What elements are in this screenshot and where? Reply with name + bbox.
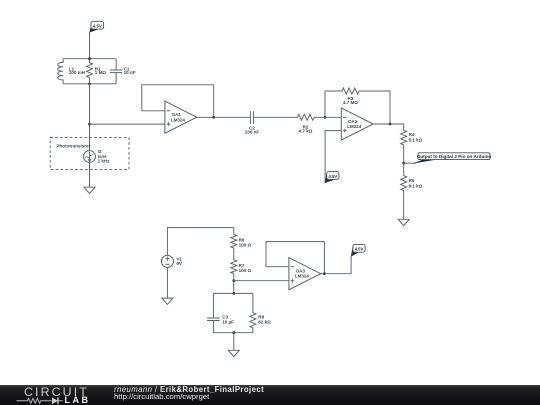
wire V1 top rail xyxy=(167,228,233,256)
wire I3 to ground xyxy=(89,162,91,187)
OA3 output wire xyxy=(321,257,351,274)
current source I3 xyxy=(84,149,111,163)
svg-text:LM324: LM324 xyxy=(295,274,310,279)
svg-text:82 kΩ: 82 kΩ xyxy=(258,319,271,324)
svg-text:100 mH: 100 mH xyxy=(69,70,85,75)
OA1 feedback loop wire xyxy=(142,85,214,117)
supply flag 4.5V top-left xyxy=(89,21,103,58)
node: divider mid junction xyxy=(232,279,235,282)
resistor R8 xyxy=(250,293,271,332)
svg-text:10 µF: 10 µF xyxy=(222,319,234,324)
resistor R2 xyxy=(253,114,325,133)
svg-text:1 kHz: 1 kHz xyxy=(98,159,111,164)
svg-text:100 nF: 100 nF xyxy=(245,130,260,135)
svg-text:9.1 kΩ: 9.1 kΩ xyxy=(409,183,423,188)
OA3 feedback loop wire xyxy=(266,242,324,274)
op-amp OA3 xyxy=(289,258,321,290)
resistor R6 xyxy=(231,228,252,254)
capacitor C3 xyxy=(207,293,234,332)
capacitor C1 xyxy=(110,59,136,84)
node: RC bottom junction xyxy=(232,331,235,334)
supply flag 4.5V (OA3 output) xyxy=(351,244,365,256)
wire junction to OA3 +input xyxy=(234,280,289,282)
wire to OA1 + input xyxy=(90,123,165,125)
svg-text:R7: R7 xyxy=(239,263,245,268)
wire RC box to ground xyxy=(233,333,235,351)
node: OA3 output junction xyxy=(323,272,326,275)
svg-text:4.7 MΩ: 4.7 MΩ xyxy=(343,100,358,105)
svg-text:9V: 9V xyxy=(176,261,182,266)
op-amp OA2 xyxy=(341,108,373,140)
ground (phototransistor) xyxy=(84,187,95,193)
resistor R5 xyxy=(401,163,423,219)
wire V1 to ground xyxy=(166,267,168,298)
svg-text:R6: R6 xyxy=(239,237,245,242)
ground (V1) xyxy=(162,298,173,304)
svg-text:4.5V: 4.5V xyxy=(328,174,337,179)
CircuitLab logo xyxy=(24,385,89,399)
svg-text:5.1 kΩ: 5.1 kΩ xyxy=(409,137,423,142)
resistor R1 xyxy=(87,59,107,84)
svg-text:Output to Digital 2 Pin on Ard: Output to Digital 2 Pin on Arduino xyxy=(417,154,492,159)
node: divider junction xyxy=(402,162,405,165)
resistor R4 xyxy=(401,124,423,163)
ground (RC box) xyxy=(228,350,239,356)
svg-text:LM324: LM324 xyxy=(347,124,362,129)
node: OA1 +input tee xyxy=(88,123,91,126)
ground (divider) xyxy=(398,219,409,225)
svg-text:1 MΩ: 1 MΩ xyxy=(95,70,107,75)
svg-text:LM324: LM324 xyxy=(171,117,186,122)
svg-text:4.5V: 4.5V xyxy=(355,247,364,252)
wire junction down to RC box xyxy=(233,281,235,294)
phototransistor dashed box xyxy=(50,138,129,170)
svg-text:100 Ω: 100 Ω xyxy=(239,243,252,248)
svg-text:100 Ω: 100 Ω xyxy=(239,268,252,273)
svg-text:Phototransistor: Phototransistor xyxy=(57,144,91,149)
resistor R7 xyxy=(231,254,252,281)
OA2 output wire xyxy=(373,123,404,125)
OA1 output wire xyxy=(197,116,251,118)
RC box rails xyxy=(213,293,253,332)
node: RC top junction xyxy=(232,292,235,295)
capacitor C2 xyxy=(245,111,260,134)
node: OA2 -input junction xyxy=(324,116,327,119)
footer banner xyxy=(0,385,540,405)
inductor L1 xyxy=(58,59,85,84)
voltage source V1 xyxy=(161,255,182,267)
node: OA2 output junction xyxy=(389,123,392,126)
svg-text:4.7 kΩ: 4.7 kΩ xyxy=(299,129,313,134)
svg-text:4.5V: 4.5V xyxy=(93,24,102,29)
wire into OA2 -input xyxy=(325,116,341,118)
output flag to Arduino xyxy=(404,153,492,164)
svg-text:R4: R4 xyxy=(409,132,415,137)
node: tank top junction xyxy=(88,57,91,60)
OA2 +input wire to 4.5V flag xyxy=(325,131,342,184)
node: tank bottom junction xyxy=(88,82,91,85)
node: OA1 output junction xyxy=(212,116,215,119)
svg-text:10 nF: 10 nF xyxy=(124,70,136,75)
op-amp OA1 xyxy=(165,101,197,133)
wire tank to phototransistor xyxy=(89,84,91,151)
svg-text:R5: R5 xyxy=(409,178,415,183)
resistor R3 feedback xyxy=(325,88,390,124)
LC tank wires xyxy=(63,59,116,84)
